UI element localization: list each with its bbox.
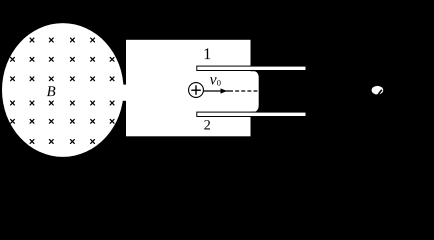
plate 2 xyxy=(196,112,306,117)
dashed trajectory line xyxy=(235,90,259,92)
impact spot on screen xyxy=(372,86,384,95)
deflection box xyxy=(126,40,251,137)
label 2 xyxy=(204,120,210,129)
bulge between plates at box exit xyxy=(245,71,259,112)
x marks grid xyxy=(11,38,114,143)
v0 label xyxy=(210,77,217,84)
plate 1 xyxy=(196,66,306,71)
slit bridge between circle and box xyxy=(119,85,127,101)
label B xyxy=(47,86,56,96)
v0 velocity arrow xyxy=(204,88,234,93)
label 1 xyxy=(205,48,211,59)
positive charge xyxy=(189,83,204,98)
field region circle (B into page) xyxy=(2,23,124,157)
